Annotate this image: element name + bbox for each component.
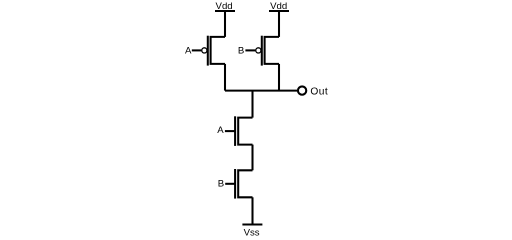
transistor M1 (PMOS, input A, left pull-up) [202, 36, 225, 66]
node Out open terminal circle [298, 86, 306, 94]
M3 drain/source leads + channel bar [238, 118, 252, 145]
wire M2 drain down to output rail [278, 64, 280, 91]
svg-text:Out: Out [310, 87, 328, 98]
wire M3 source to M4 drain [251, 145, 253, 171]
svg-text:A: A [217, 125, 224, 136]
power Vss rail (bar) [242, 223, 262, 225]
wire input B to M2 gate [245, 49, 255, 51]
transistor M4 (NMOS, input B, lower pull-down) [235, 169, 252, 199]
power Vdd rail 1 (bar) [215, 10, 235, 12]
transistor M3 (NMOS, input A, upper pull-down) [235, 116, 252, 146]
wire input A to M1 gate [192, 49, 202, 51]
wire M4 source down to Vss [251, 197, 253, 224]
svg-text:Vdd: Vdd [216, 1, 233, 12]
M1 source/drain leads + channel bar [211, 37, 225, 64]
wire Vdd1 to M1 source [224, 11, 226, 37]
M2 source/drain leads + channel bar [265, 37, 279, 64]
M2 gate bar [261, 36, 263, 66]
wire input B to M4 gate [225, 183, 235, 185]
M2 PMOS inversion bubble [256, 48, 261, 53]
M3 gate bar [234, 116, 236, 146]
wire output rail (node Out) [225, 90, 297, 92]
wire Vdd2 to M2 source [278, 11, 280, 37]
wire M1 drain down to output rail [224, 64, 226, 91]
svg-text:A: A [185, 45, 192, 56]
power Vdd rail 2 (bar) [269, 10, 289, 12]
svg-text:Vdd: Vdd [270, 1, 287, 12]
svg-text:Vss: Vss [244, 227, 260, 238]
M4 drain/source leads + channel bar [238, 170, 252, 197]
wire output rail down to M3 drain [251, 91, 253, 118]
transistor M2 (PMOS, input B, right pull-up) [256, 36, 279, 66]
wire input A to M3 gate [225, 130, 235, 132]
svg-text:B: B [218, 179, 224, 190]
M1 gate bar [207, 36, 209, 66]
svg-text:B: B [238, 45, 244, 56]
M1 PMOS inversion bubble [202, 48, 207, 53]
M4 gate bar [234, 169, 236, 199]
